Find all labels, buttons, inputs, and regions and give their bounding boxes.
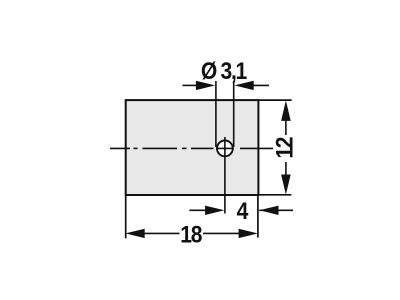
svg-text:12: 12 (271, 137, 298, 159)
svg-text:18: 18 (180, 221, 202, 248)
svg-text:4: 4 (237, 198, 249, 225)
svg-text:Ø 3,1: Ø 3,1 (201, 58, 247, 85)
